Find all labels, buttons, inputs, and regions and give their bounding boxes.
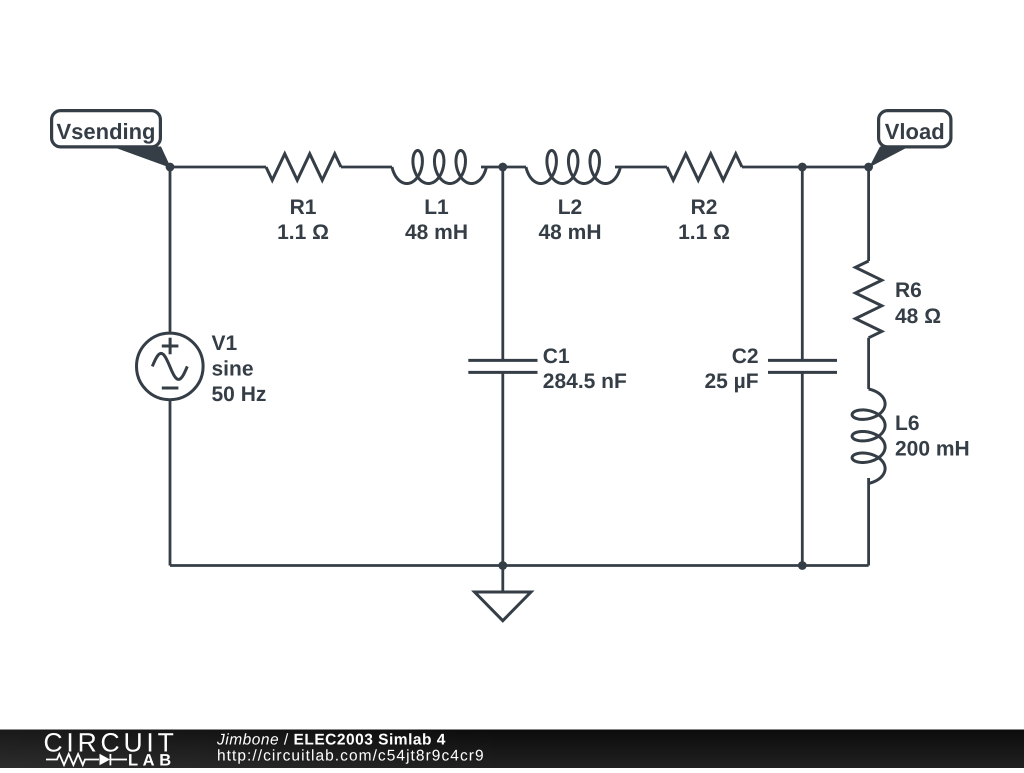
svg-text:V1: V1 (212, 332, 238, 355)
svg-text:C2: C2 (732, 345, 759, 368)
svg-text:sine: sine (212, 358, 254, 381)
svg-text:R1: R1 (290, 196, 317, 219)
svg-text:48 mH: 48 mH (405, 221, 468, 244)
svg-text:1.1 Ω: 1.1 Ω (678, 221, 730, 244)
svg-text:L2: L2 (558, 196, 583, 219)
svg-text:Jimbone / ELEC2003 Simlab 4: Jimbone / ELEC2003 Simlab 4 (216, 731, 446, 748)
svg-text:http://circuitlab.com/c54jt8r9: http://circuitlab.com/c54jt8r9c4cr9 (217, 747, 485, 764)
svg-text:Vsending: Vsending (56, 119, 155, 144)
svg-text:L1: L1 (424, 196, 449, 219)
svg-text:LAB: LAB (128, 752, 176, 768)
svg-text:C1: C1 (543, 345, 570, 368)
svg-text:50 Hz: 50 Hz (212, 383, 267, 406)
svg-text:200 mH: 200 mH (895, 438, 970, 461)
svg-text:1.1 Ω: 1.1 Ω (277, 221, 329, 244)
svg-text:R2: R2 (691, 196, 718, 219)
svg-text:R6: R6 (895, 279, 922, 302)
svg-text:Vload: Vload (885, 119, 945, 144)
svg-text:284.5 nF: 284.5 nF (543, 370, 627, 393)
svg-text:25 µF: 25 µF (704, 370, 758, 393)
svg-text:L6: L6 (895, 412, 920, 435)
svg-text:48 Ω: 48 Ω (895, 305, 941, 328)
svg-text:48 mH: 48 mH (538, 221, 601, 244)
